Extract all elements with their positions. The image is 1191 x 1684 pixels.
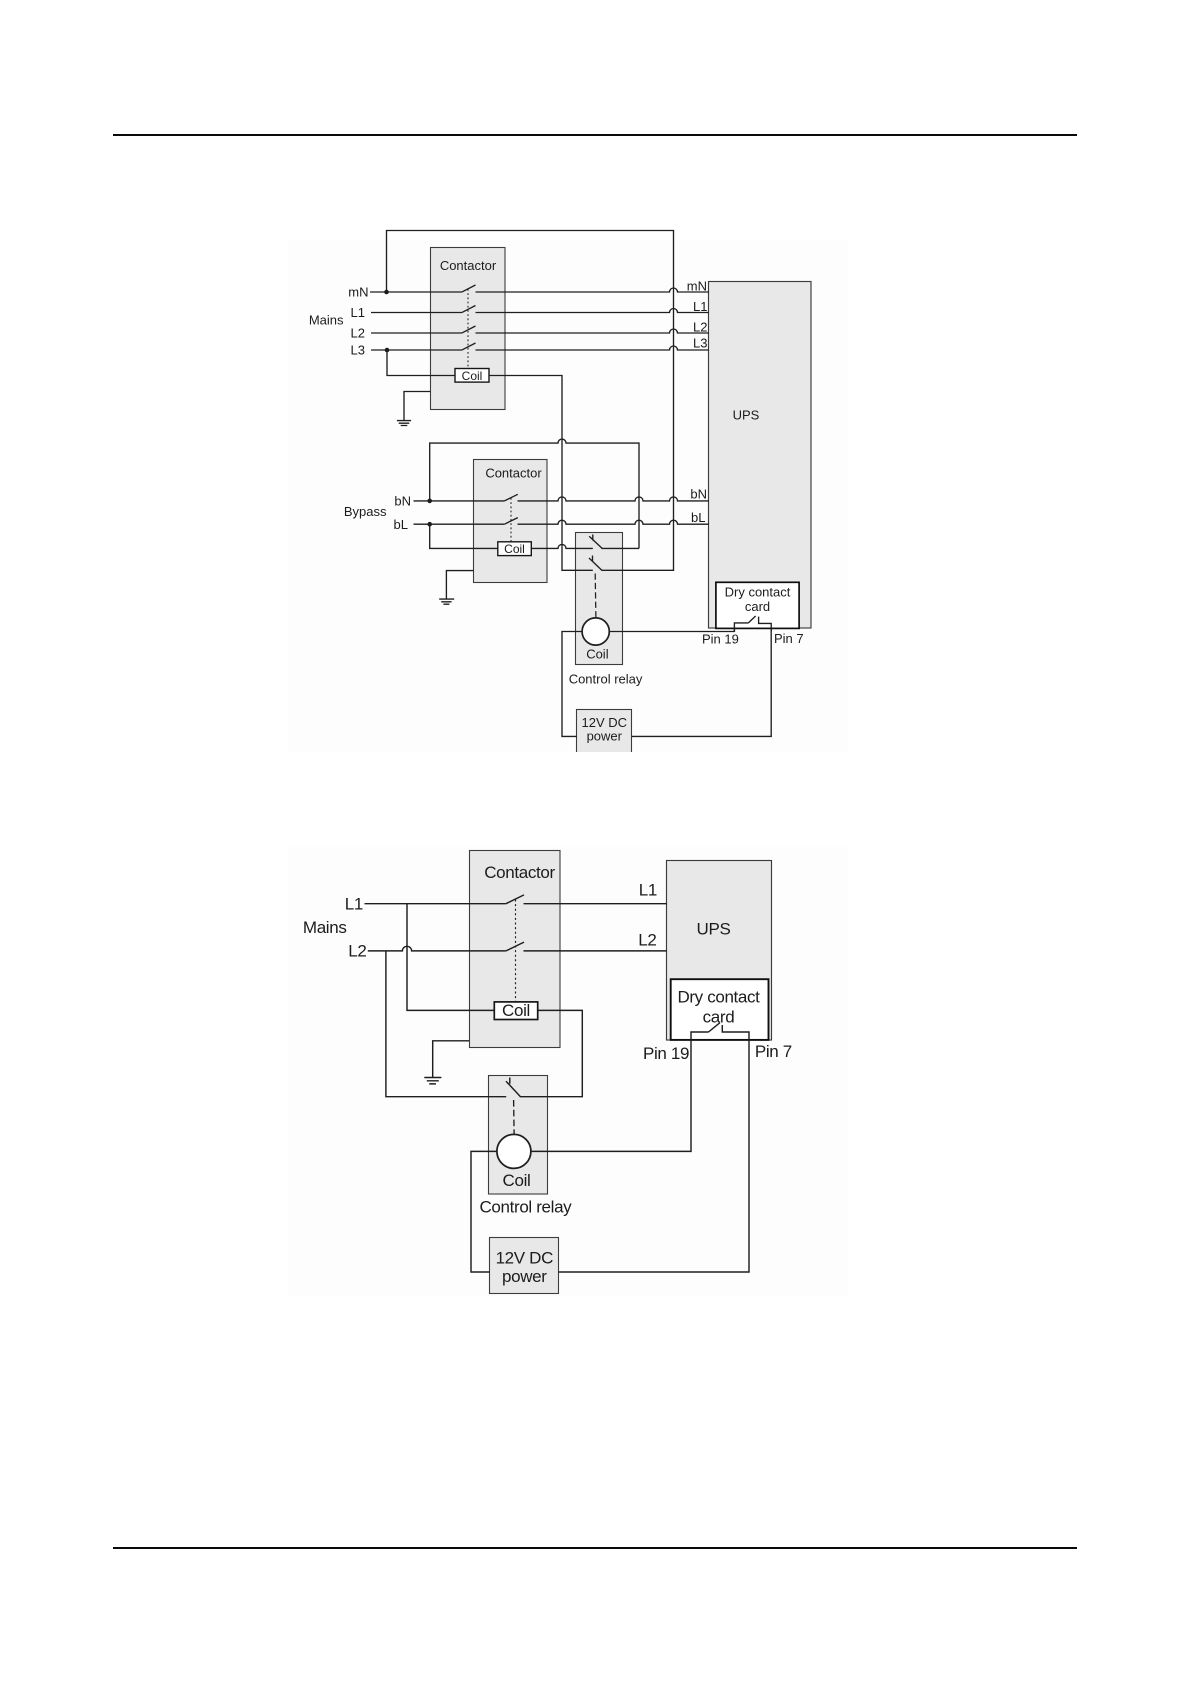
svg-text:power: power — [502, 1267, 547, 1286]
svg-text:Pin 7: Pin 7 — [774, 631, 804, 646]
svg-text:Pin 7: Pin 7 — [755, 1042, 792, 1061]
svg-text:Coil: Coil — [502, 1001, 530, 1020]
svg-text:12V DC: 12V DC — [496, 1249, 553, 1268]
svg-text:Mains: Mains — [303, 918, 347, 937]
svg-text:L2: L2 — [638, 931, 656, 950]
svg-text:L1: L1 — [351, 305, 365, 320]
svg-text:Contactor: Contactor — [485, 466, 542, 481]
svg-text:Bypass: Bypass — [344, 504, 387, 519]
svg-text:Control relay: Control relay — [569, 672, 643, 687]
svg-text:L2: L2 — [348, 942, 366, 961]
svg-text:Control relay: Control relay — [480, 1198, 573, 1217]
svg-text:card: card — [703, 1007, 735, 1026]
svg-text:mN: mN — [348, 285, 368, 300]
svg-text:bN: bN — [394, 494, 411, 509]
svg-text:card: card — [745, 599, 770, 614]
svg-text:Dry contact: Dry contact — [725, 585, 791, 600]
svg-text:Pin 19: Pin 19 — [702, 632, 739, 647]
svg-text:L2: L2 — [351, 326, 365, 341]
svg-text:Coil: Coil — [503, 1171, 531, 1190]
svg-text:power: power — [587, 729, 623, 744]
svg-text:Coil: Coil — [504, 542, 525, 556]
svg-text:bL: bL — [394, 517, 408, 532]
svg-text:L1: L1 — [345, 895, 363, 914]
svg-text:Pin 19: Pin 19 — [643, 1044, 689, 1063]
svg-text:Contactor: Contactor — [484, 863, 555, 882]
svg-text:L2: L2 — [693, 319, 707, 334]
svg-text:Coil: Coil — [586, 647, 609, 662]
svg-text:Dry contact: Dry contact — [677, 988, 760, 1007]
svg-text:L1: L1 — [693, 299, 707, 314]
svg-text:UPS: UPS — [697, 919, 731, 938]
svg-text:bN: bN — [690, 487, 707, 502]
svg-text:L3: L3 — [351, 343, 365, 358]
svg-text:L3: L3 — [693, 336, 707, 351]
svg-text:UPS: UPS — [733, 407, 760, 422]
svg-text:mN: mN — [687, 278, 707, 293]
svg-text:Coil: Coil — [462, 369, 483, 383]
svg-text:bL: bL — [691, 510, 705, 525]
svg-text:Contactor: Contactor — [440, 258, 497, 273]
svg-text:Mains: Mains — [309, 313, 344, 328]
svg-text:L1: L1 — [639, 880, 657, 899]
